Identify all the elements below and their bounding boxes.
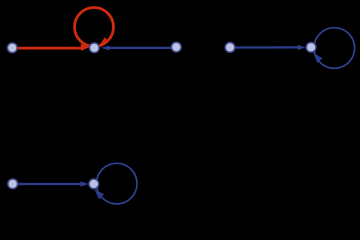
node G bbox=[89, 179, 99, 189]
blue self-loop arrowhead bbox=[313, 53, 322, 63]
red edge A->B bbox=[17, 47, 83, 50]
blue edge C->B bbox=[108, 47, 172, 49]
red edge A->B arrowhead bbox=[81, 44, 90, 51]
blue edge C->B arrowhead bbox=[101, 46, 110, 51]
red self-loop on node B bbox=[75, 8, 114, 47]
node C bbox=[171, 42, 181, 52]
blue self-loop on node E bbox=[314, 28, 355, 69]
blue self-loop on node G bbox=[96, 163, 137, 204]
node B bbox=[89, 43, 99, 53]
node D bbox=[225, 43, 235, 53]
blue edge D->E bbox=[236, 46, 301, 48]
blue edge D->E arrowhead bbox=[298, 45, 306, 50]
blue edge F->G arrowhead bbox=[81, 181, 89, 186]
node F bbox=[8, 179, 18, 189]
node E bbox=[306, 42, 316, 52]
graph 3 (bottom-left) bbox=[8, 163, 137, 204]
graph 1 (top-left) bbox=[7, 8, 181, 53]
graph 2 (top-right) bbox=[225, 28, 354, 69]
blue edge F->G bbox=[18, 183, 83, 185]
node A bbox=[7, 43, 17, 53]
red self-loop arrowhead bbox=[100, 37, 109, 45]
blue self-loop arrowhead bbox=[94, 189, 104, 199]
